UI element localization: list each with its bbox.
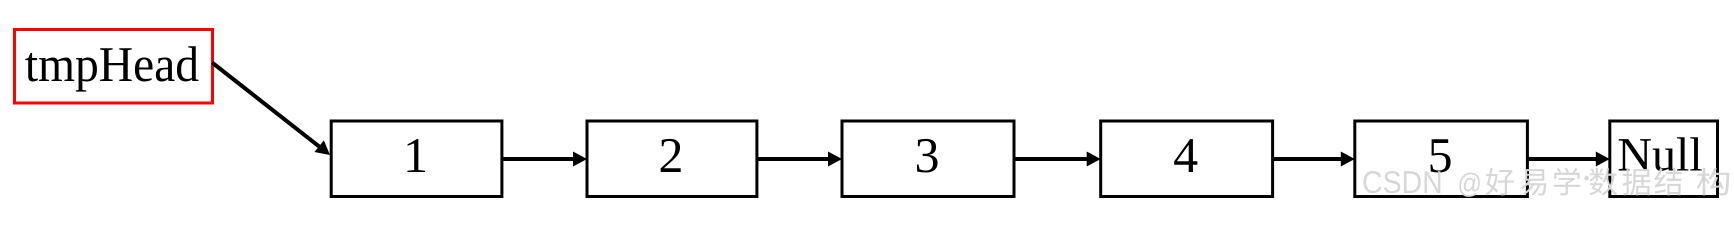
tmpHead label (25, 46, 198, 91)
watermark CJK char 好 (1486, 168, 1514, 196)
watermark CJK char 学 (1554, 168, 1581, 196)
watermark CJK char 构 (1697, 168, 1730, 196)
tmpHead box (15, 30, 213, 104)
node 5 box (1355, 121, 1528, 197)
node 4 box (1101, 121, 1273, 197)
watermark CJK char 易 (1521, 169, 1547, 195)
watermark CJK char 据 (1622, 168, 1650, 196)
node 1 value label "1" (407, 139, 425, 172)
node 1 box (331, 121, 502, 197)
watermark middle dot (1584, 176, 1589, 181)
node 5 value label "5" (1431, 139, 1451, 172)
watermark text CSDN (1363, 171, 1440, 193)
node 3 value label "3" (917, 139, 938, 173)
wire arrow node 3 to node 4 (1014, 152, 1101, 167)
wire arrow tmpHead to node 1 (diagonal) (212, 63, 330, 156)
wire arrow node 1 to node 2 (502, 152, 587, 167)
Null label (1619, 137, 1702, 171)
Null box (1610, 121, 1718, 197)
node 2 box (587, 121, 757, 197)
watermark CJK char 结 (1655, 168, 1682, 196)
wire arrow node 4 to node 5 (1273, 152, 1355, 167)
node 4 value label "4" (1174, 139, 1197, 172)
watermark CJK char 数 (1589, 168, 1617, 196)
node 3 box (842, 121, 1014, 197)
wire arrow node 5 to Null (1527, 152, 1609, 167)
watermark text @ (1459, 172, 1480, 196)
node 2 value label "2" (661, 139, 681, 172)
wire arrow node 2 to node 3 (757, 152, 842, 167)
